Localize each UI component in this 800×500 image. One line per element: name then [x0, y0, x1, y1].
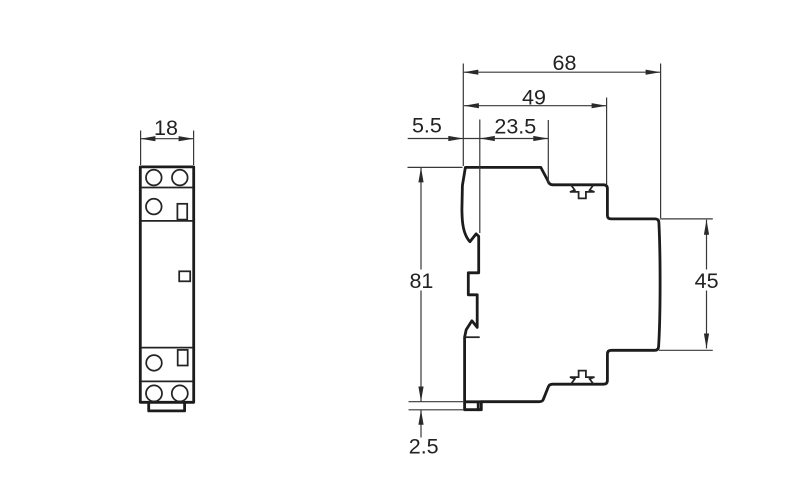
- arrow 18 left: [140, 136, 155, 141]
- ext 45 bottom: [659, 349, 713, 351]
- label 81 backing: [409, 270, 435, 291]
- rect band3: [178, 350, 188, 366]
- ext line 81 top: [408, 166, 463, 168]
- svg-text:23.5: 23.5: [494, 115, 536, 139]
- circle band3: [146, 355, 162, 371]
- arrow 68 right: [646, 70, 661, 75]
- svg-text:2.5: 2.5: [409, 435, 439, 459]
- circle band2: [146, 199, 162, 215]
- svg-text:5.5: 5.5: [412, 114, 442, 138]
- arrow 81 top: [418, 167, 423, 182]
- body outline front view: [140, 167, 193, 402]
- arrow 49 right: [592, 103, 607, 108]
- top T-clip detail: [570, 185, 595, 199]
- arrow 23.5 right (pointing right): [533, 136, 548, 141]
- ext line 68 right: [660, 64, 662, 219]
- ext 45 top: [660, 218, 713, 220]
- dimension 18 line: [140, 138, 193, 140]
- arrow 49 left: [464, 103, 479, 108]
- ext 2.5 lower: [409, 409, 465, 411]
- middle small square: [179, 271, 190, 281]
- dim 5.5 / 23.5 line: [408, 138, 549, 140]
- ext 2.5 upper: [409, 401, 465, 403]
- svg-text:18: 18: [154, 116, 178, 140]
- front face tick mark: [660, 267, 661, 273]
- ext line left face (68/49/5.5): [462, 64, 464, 167]
- dim 49 line: [464, 105, 607, 107]
- ext line 49 right: [606, 98, 608, 185]
- arrow 45 bottom: [704, 334, 709, 349]
- bottom T-clip detail: [570, 371, 595, 385]
- terminal circle top-left: [146, 170, 162, 186]
- arrow 81 bottom: [418, 387, 423, 402]
- separator line 2: [141, 220, 193, 222]
- svg-text:45: 45: [695, 269, 719, 293]
- dimension 18 extension lines: [140, 131, 142, 166]
- separator line 1: [141, 187, 193, 189]
- foot internal notch: [465, 402, 482, 410]
- terminal circle bottom-right: [172, 385, 188, 401]
- separator line 4: [141, 380, 193, 382]
- svg-text:81: 81: [409, 269, 433, 293]
- dim 68 line: [463, 71, 660, 73]
- svg-text:68: 68: [553, 51, 577, 75]
- terminal circle bottom-left: [146, 385, 162, 401]
- label 45 backing: [693, 270, 721, 291]
- arrow 5.5 (outside, pointing right): [448, 136, 463, 141]
- ext line 23.5 right: [547, 120, 549, 183]
- ext line 5.5/23.5 boundary: [479, 120, 481, 234]
- dim 45 line: [706, 220, 708, 349]
- arrow 45 top: [704, 220, 709, 235]
- dim 81 line: [420, 167, 422, 401]
- arrow 23.5 left (pointing left): [480, 136, 495, 141]
- separator line 3: [141, 347, 193, 349]
- foot (bottom plug): [149, 403, 185, 411]
- hook floor internal line: [465, 336, 480, 338]
- arrow 68 left: [463, 70, 478, 75]
- svg-text:49: 49: [522, 86, 546, 110]
- rect band2: [177, 204, 187, 220]
- terminal circle top-right: [172, 170, 188, 186]
- dim 2.5 lower line: [420, 410, 422, 438]
- arrow 18 right: [179, 136, 194, 141]
- arrow 2.5 up: [418, 410, 423, 425]
- side profile outline: [462, 167, 660, 409]
